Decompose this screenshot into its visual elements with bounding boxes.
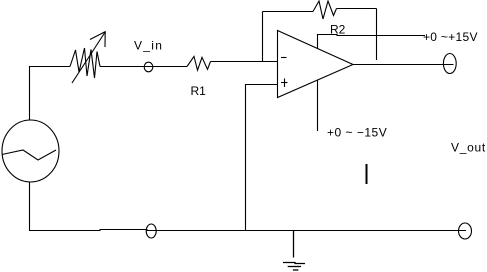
svg-text:+0 ~ −15V: +0 ~ −15V [327, 125, 387, 139]
op-amp V- pin wire [317, 80, 319, 131]
wire R2 to feedback right corner [337, 8, 377, 10]
wire source bottom [29, 182, 31, 231]
resistor R2 [313, 1, 337, 19]
wire bottom rail [29, 230, 466, 231]
terminal V_out [443, 54, 456, 74]
wire output [353, 64, 454, 66]
terminal bottom left [146, 224, 156, 238]
svg-text:V_out: V_out [451, 141, 486, 155]
node V_in terminal [144, 62, 153, 72]
terminal bottom right [459, 223, 472, 239]
svg-text:V_in: V_in [134, 39, 163, 53]
wire R1 to op-amp inverting input [211, 61, 278, 63]
resistor R1 [187, 56, 211, 70]
wire feedback tap up [262, 12, 264, 62]
wire source top to rheostat [30, 67, 71, 121]
wire feedback top left [263, 11, 314, 13]
svg-text:+0 ~+15V: +0 ~+15V [423, 30, 478, 44]
op-amp inverting input marker [281, 57, 287, 59]
svg-text:R1: R1 [191, 84, 207, 98]
variable resistor RV1 [70, 32, 106, 84]
wire rheostat to node V_in [100, 66, 187, 68]
op-amp non-inverting input marker [281, 79, 288, 88]
wire non-inverting input [246, 85, 278, 231]
ground [283, 231, 305, 271]
op-amp U1 [278, 31, 354, 98]
tick mark [366, 164, 368, 184]
op-amp V+ pin wire [318, 35, 426, 49]
voltage source AC1 [2, 120, 59, 182]
wire feedback down toward output [376, 9, 378, 61]
